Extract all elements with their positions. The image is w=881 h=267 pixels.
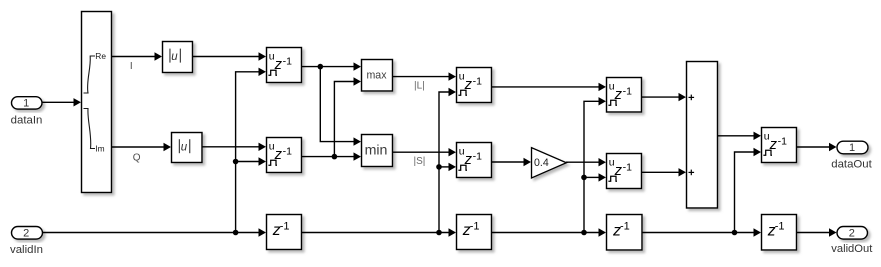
svg-text:-1: -1 [283, 145, 292, 157]
svg-text:-1: -1 [775, 221, 785, 233]
svg-text:-1: -1 [280, 220, 290, 232]
junction dot validIn branch 4 [732, 230, 738, 236]
wire D1 out to max in1 [301, 62, 361, 70]
enable wire V2 up to D3/D4 [439, 88, 456, 233]
wire D6 out to sum in2 [641, 168, 686, 176]
wire Im to Abs2, node label Q [112, 143, 171, 164]
output port 1 dataOut [831, 141, 872, 170]
wire validIn to B1 [42, 228, 266, 236]
svg-text:-1: -1 [623, 85, 632, 97]
wire D3 out to D5 u [491, 83, 606, 91]
svg-text:-1: -1 [473, 150, 482, 162]
delay block D2 (enabled delay, Q path) [267, 138, 302, 173]
wire D4 out to gain [491, 158, 531, 166]
junction dot V3 to D6 enable [581, 175, 587, 181]
svg-text:1: 1 [849, 142, 855, 154]
wire dataIn to complex block [42, 98, 82, 106]
enable branch to D2 [236, 157, 266, 165]
svg-text:min: min [365, 142, 388, 158]
svg-text:Q: Q [133, 152, 141, 163]
delay block D3 (enabled delay, L path) [457, 68, 492, 103]
svg-text:validOut: validOut [831, 243, 873, 255]
wire sum out to D7 u [717, 132, 761, 140]
wire B2 to B3 [491, 228, 606, 236]
junction dot validIn branch 3 [581, 230, 587, 236]
unit delay block B4 (valid line) [762, 215, 797, 251]
delay block D1 (enabled delay, I path) [267, 48, 302, 83]
enable wire V4 up to D7 [735, 148, 762, 233]
max block [362, 60, 393, 92]
abs block |u| (I path) [163, 42, 193, 73]
svg-text:validIn: validIn [10, 244, 43, 256]
gain block 0.4 [532, 148, 567, 178]
delay block D5 (enabled delay) [607, 78, 642, 113]
svg-text:1: 1 [23, 97, 29, 109]
junction dot on D1 out [318, 64, 324, 70]
wire min out to D4 u, net label |S| [393, 148, 457, 167]
svg-text:Re: Re [95, 51, 106, 61]
enable branch to D6 [584, 173, 606, 181]
svg-text:2: 2 [849, 227, 855, 239]
svg-text:-1: -1 [283, 55, 292, 67]
unit delay block B2 (valid line) [457, 215, 492, 250]
junction dot validIn branch 1 [233, 230, 239, 236]
unit delay block B3 (valid line) [607, 215, 643, 251]
svg-text:-1: -1 [620, 221, 630, 233]
wire branch D1 out down to min in1 [320, 67, 361, 146]
sum block [687, 62, 718, 209]
delay block D4 (enabled delay, S path) [457, 143, 492, 178]
delay block D7 (enabled delay, output) [762, 128, 797, 163]
wire Abs2 to Delay2 u [202, 143, 267, 151]
wire D5 out to sum in1 [641, 93, 686, 101]
junction dot V1 to D2 enable [233, 159, 239, 165]
junction dot on D2 out [332, 154, 338, 160]
wire B1 to B2 [301, 228, 456, 236]
unit delay block B1 (valid line) [267, 215, 302, 250]
svg-text:u: u [171, 51, 178, 63]
svg-text:I: I [130, 61, 133, 72]
wire Abs1 to Delay1 u [192, 52, 266, 60]
min block [362, 135, 393, 167]
enable wire V3 up to D5/D6 [584, 97, 606, 232]
input port 1 dataIn [11, 97, 43, 127]
wire D7 out to dataOut [796, 143, 837, 151]
wire max out to D3 u, net label |L| [392, 72, 456, 91]
svg-text:-1: -1 [623, 161, 632, 173]
enable wire V1 up to D1/D2 [236, 68, 266, 233]
abs block |u| (Q path) [172, 133, 203, 163]
svg-text:u: u [181, 142, 188, 154]
svg-text:0.4: 0.4 [534, 157, 549, 169]
junction dot validIn branch 2 [436, 230, 442, 236]
delay block D6 (enabled delay) [607, 154, 642, 189]
wire gain out to D6 u [566, 158, 606, 166]
input port 2 validIn [10, 227, 43, 257]
wire B4 to validOut [796, 228, 837, 236]
svg-text:|L|: |L| [414, 81, 425, 92]
wire Re to Abs1, node label I [112, 52, 162, 72]
svg-text:-1: -1 [778, 135, 787, 147]
wire branch D2 out up to max in2 [334, 77, 361, 156]
svg-text:max: max [366, 69, 387, 81]
output port 2 validOut [831, 227, 873, 256]
svg-text:|S|: |S| [414, 156, 426, 167]
block Complex to Real-Imag [82, 12, 112, 193]
svg-text:dataIn: dataIn [11, 114, 43, 126]
enable branch to D4 [439, 163, 456, 171]
junction dot V2 to D4 enable [436, 164, 442, 170]
svg-text:-1: -1 [473, 75, 482, 87]
svg-text:Im: Im [95, 144, 104, 154]
wire D2 out to min in2 [301, 152, 361, 160]
wire B3 to B4 [642, 228, 762, 236]
svg-text:2: 2 [23, 227, 29, 239]
svg-text:dataOut: dataOut [831, 159, 872, 171]
svg-text:-1: -1 [470, 220, 480, 232]
